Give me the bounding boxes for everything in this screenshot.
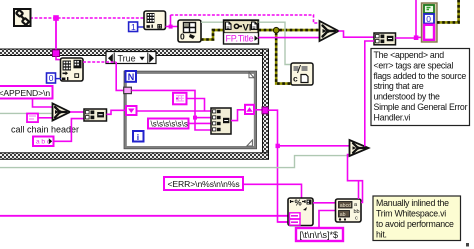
wire junction into cluster	[414, 35, 419, 40]
svg-text:understood by the: understood by the	[374, 92, 441, 102]
wire: table constant joins row1 wire	[187, 99, 205, 112]
call chain icon	[14, 9, 31, 26]
delete from array icon (in sequence)	[61, 58, 84, 81]
outer flat-sequence structure border bottom band	[0, 153, 269, 160]
svg-text:Simple and General Error: Simple and General Error	[374, 102, 468, 112]
wire: FP.Title string output to concatenate T1 lower input	[259, 37, 321, 39]
stray mark bottom right	[466, 243, 469, 247]
wire: shift register through case border to sequence tunnel	[254, 109, 262, 111]
wire: regex up to search/replace	[319, 211, 336, 229]
svg-text:ab: ab	[340, 212, 346, 218]
wire: VI refnum olive from open ref to property node	[201, 30, 224, 39]
wire: top rail to concatenate T1 (dashed)	[171, 15, 321, 23]
svg-text:0: 0	[426, 14, 431, 24]
wire: append down to concatenate T0	[33, 99, 54, 108]
wire: space constant to T0	[38, 117, 53, 119]
wire: long teal error line to T2	[0, 156, 349, 168]
svg-text:Handler.vi: Handler.vi	[374, 112, 411, 122]
trim whitespace subVI (left)	[84, 109, 107, 121]
wire: olive down to get attribute icon	[276, 33, 291, 84]
wire: T1 output to trim icon	[339, 31, 375, 37]
for loop count terminal N	[126, 71, 137, 82]
wire: control refnum teal from open ref to property node	[201, 21, 224, 23]
string constant regex	[296, 228, 343, 241]
svg-text:a b c: a b c	[36, 139, 51, 146]
wire short stub above icon	[358, 181, 360, 199]
svg-text:to avoid performance: to avoid performance	[376, 219, 454, 229]
wire junction on call chain wire	[53, 15, 59, 21]
svg-text:abcd: abcd	[340, 203, 351, 209]
svg-text:Trim Whitespace.vi: Trim Whitespace.vi	[376, 209, 446, 219]
index array icon (top)	[144, 11, 166, 30]
wire stub second string input	[278, 221, 292, 223]
for loop frame	[124, 71, 257, 149]
wire: olive refnum from cluster up offscreen	[437, 0, 459, 22]
open VI reference icon	[178, 20, 201, 42]
wire: \s constant to format node row3	[189, 122, 212, 124]
svg-text:Manually inlined the: Manually inlined the	[376, 198, 449, 208]
concatenate strings T1	[320, 21, 339, 41]
svg-text:N: N	[128, 72, 135, 82]
wire: left shift register to format node row1	[137, 110, 212, 112]
loop border tunnel	[124, 87, 132, 93]
wire: format node out to right shift register	[231, 110, 245, 121]
svg-text:1: 1	[131, 22, 136, 32]
wire: index array out up to top rail	[166, 15, 179, 27]
wire: 0 to delete from array (blue)	[56, 78, 62, 80]
svg-text:flags added to the source: flags added to the source	[374, 71, 467, 81]
svg-text:%: %	[295, 199, 302, 208]
comment box: manually inlined note (yellow)	[373, 196, 461, 241]
wire: teal call chain line into T0	[0, 112, 53, 114]
wire: ERR constant to format icon	[243, 184, 302, 198]
right shift register (up arrow)	[245, 105, 254, 114]
tunnel on sequence top border	[53, 50, 60, 57]
svg-text:i: i	[137, 132, 139, 142]
iteration terminal i	[133, 131, 144, 142]
wire: trim output right and up (cropped)	[396, 0, 417, 38]
format/concatenate node in loop (4 rows)	[211, 108, 231, 134]
get attribute icon (B/c D)	[291, 63, 313, 85]
wire: trim out into case/loop left shift register	[107, 110, 127, 114]
wire: abc up to trim subVI lower input	[54, 119, 85, 142]
cluster constant (refnum / 0 / string)	[422, 3, 438, 42]
pink table constant	[173, 93, 187, 105]
concatenate strings T2	[350, 140, 369, 156]
svg-text:call chain header: call chain header	[11, 125, 79, 135]
left shift register (down arrow)	[126, 106, 137, 115]
string constant \s\s\s\s\s\s	[148, 119, 189, 129]
svg-text:<err> tags are special: <err> tags are special	[374, 60, 454, 70]
wire: call chain string array (dashed magenta)	[30, 17, 144, 19]
wire junction	[276, 144, 280, 148]
wire: down to sequence tunnel	[55, 21, 57, 51]
wire branch to format node row2	[195, 117, 211, 119]
trim whitespace subVI (top right)	[374, 33, 396, 45]
svg-text:True: True	[118, 54, 136, 64]
comment box: append/err tags note	[371, 49, 470, 126]
string constant <APPEND>\n	[0, 86, 53, 99]
property node FP.Title	[224, 20, 259, 44]
outer flat-sequence structure border right band	[263, 49, 269, 159]
svg-text:VI: VI	[243, 22, 252, 33]
svg-text:The <append> and: The <append> and	[374, 50, 445, 60]
space string constant (hatched)	[27, 114, 38, 123]
wire: loop tunnel string across loop	[131, 90, 211, 130]
wire: teal from property node right to attribute icon	[259, 22, 292, 64]
wire: long bottom string input	[0, 215, 291, 217]
case selector label "True"	[106, 52, 156, 65]
wire: tunnel out, down to T2 and ERR area	[268, 110, 290, 222]
concatenate strings T0	[53, 104, 71, 121]
svg-text:FP.Title: FP.Title	[226, 33, 254, 43]
svg-text:string that are: string that are	[374, 81, 424, 91]
format into string icon	[288, 198, 313, 226]
numeric constant 1	[129, 22, 138, 32]
wire: to T2 top input	[278, 145, 351, 147]
wire: 1 to index array (blue)	[138, 26, 144, 28]
olive wire junction dot	[273, 27, 279, 33]
numeric constant 0	[47, 73, 56, 83]
svg-text:[\t\n\r\s]*$: [\t\n\r\s]*$	[300, 230, 339, 240]
svg-text:c: c	[293, 74, 298, 84]
search and replace string icon	[336, 199, 362, 222]
svg-text:<APPEND>\n: <APPEND>\n	[0, 88, 50, 98]
wire: VI refnum olive from property node to right	[259, 29, 320, 32]
string constant abc	[33, 137, 54, 147]
wire: search/replace out up to T2	[348, 155, 363, 203]
wire: T0 output to trim subVI	[70, 111, 84, 113]
string constant <ERR>	[164, 177, 243, 190]
svg-text:0: 0	[49, 73, 54, 83]
wire: delete-from-array out, over case into loop tunnel	[83, 61, 116, 63]
svg-text:<ERR>\n%s\n\n%s: <ERR>\n%s\n\n%s	[168, 179, 240, 189]
wire: into cluster string element	[416, 36, 422, 38]
wire: T2 output up to trim icon second input	[365, 41, 374, 147]
wire: tunnel down into Delete From Array icon	[56, 57, 61, 60]
svg-text:0: 0	[180, 32, 185, 42]
svg-text:bb: bb	[354, 209, 360, 215]
wire: format out to search/replace icon	[313, 202, 336, 204]
svg-text:c: c	[355, 216, 358, 222]
outer flat-sequence structure border top band	[0, 49, 269, 56]
svg-text:hit.: hit.	[376, 229, 387, 239]
tunnel on sequence right border	[262, 107, 268, 114]
svg-text:\s\s\s\s\s\s: \s\s\s\s\s\s	[151, 120, 188, 129]
